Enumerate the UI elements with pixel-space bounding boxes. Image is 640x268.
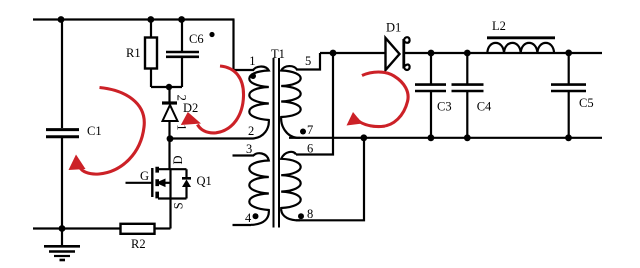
node ground / C1 bottom	[59, 225, 66, 232]
node C4 top	[464, 50, 471, 57]
node drain / pin 2	[167, 135, 174, 142]
wire C5 stems	[568, 53, 570, 138]
svg-text:1: 1	[249, 54, 255, 68]
wire R2 right lead	[155, 227, 171, 229]
wire body tap	[165, 182, 171, 184]
svg-text:8: 8	[307, 207, 313, 221]
svg-text:C3: C3	[437, 100, 452, 114]
wire D2 anode to drain node	[168, 121, 170, 169]
wire source / body diode bottom branch	[158, 197, 187, 199]
svg-text:R2: R2	[131, 237, 146, 251]
wire C3 stems	[430, 53, 432, 138]
current loop arrow 3 secondary loop	[357, 72, 409, 127]
wire pin 3 stub	[233, 154, 255, 156]
svg-text:R1: R1	[126, 46, 141, 60]
wire drain / body diode top branch	[158, 168, 187, 170]
wire pin 8 riser	[296, 138, 364, 221]
wire bottom-left rail	[33, 227, 121, 229]
node C6 top	[178, 16, 185, 23]
svg-text:4: 4	[245, 211, 252, 225]
wire pin 6 riser	[296, 53, 333, 155]
svg-text:2: 2	[174, 95, 188, 101]
inductor L2	[487, 36, 555, 39]
wire ground stem	[61, 229, 63, 246]
svg-text:5: 5	[305, 54, 311, 68]
node input top / C1	[58, 16, 65, 23]
wire top output rail left of D1	[320, 52, 386, 54]
transformer winding 6-8 secondary	[281, 152, 301, 220]
wire C6 bottom stem	[181, 58, 183, 88]
svg-text:6: 6	[307, 142, 313, 156]
wire bottom output rail from pin 7	[289, 137, 602, 139]
resistor R1	[145, 38, 157, 69]
node C3 bottom	[428, 134, 435, 141]
node phasing dot pin 8	[298, 213, 304, 219]
node C5 top	[565, 50, 572, 57]
wire R1-C6 junction link	[151, 86, 182, 88]
capacitor C3	[415, 85, 446, 91]
capacitor C6	[166, 52, 199, 57]
svg-text:S: S	[171, 202, 185, 209]
transistor Q1	[152, 167, 191, 199]
wire C4 stems	[466, 53, 468, 138]
node snubber bottom	[166, 84, 172, 90]
wire R1 top stem	[150, 20, 152, 38]
node pin7-pin8 rail	[360, 134, 367, 141]
node R1 top	[147, 16, 154, 23]
svg-text:G: G	[140, 169, 149, 183]
node C3 top	[428, 50, 435, 57]
transformer winding 3-4	[249, 153, 269, 225]
node pin5-pin6 rail	[330, 50, 337, 57]
node junction dots	[58, 16, 573, 232]
capacitor C1	[46, 130, 79, 137]
svg-text:Q1: Q1	[197, 174, 212, 188]
capacitor C4	[452, 85, 484, 91]
svg-text:C4: C4	[477, 100, 492, 114]
current loop arrow 1 primary input	[80, 88, 145, 175]
svg-text:T1: T1	[271, 47, 285, 61]
diode D1	[386, 38, 400, 70]
wire pin 5 to output rail	[296, 53, 320, 70]
wire pin 4 stub	[233, 224, 252, 226]
node C4 bottom	[464, 134, 471, 141]
capacitor C5	[551, 85, 586, 91]
wire left input vertical	[61, 20, 63, 129]
transformer T1 core	[274, 58, 280, 228]
svg-text:3: 3	[246, 142, 252, 156]
node C5 bottom	[565, 134, 572, 141]
wire C6 top stem	[181, 20, 183, 52]
node phasing dot pin 4	[253, 213, 259, 219]
svg-text:1: 1	[174, 124, 188, 130]
wire pin 2 to drain node	[170, 137, 248, 139]
node phasing dot pin 7	[300, 129, 306, 135]
wire riser to pin 1	[234, 20, 255, 71]
wire top output rail right of D1	[404, 52, 602, 54]
svg-text:7: 7	[307, 123, 313, 137]
transformer winding 1-2 primary	[247, 67, 269, 139]
wire top input rail	[33, 18, 235, 20]
wire R1 bottom stem	[150, 69, 152, 88]
transformer winding 5-7 secondary	[281, 66, 301, 138]
svg-text:C1: C1	[87, 124, 102, 138]
wire Q1 right bus	[169, 169, 171, 228]
svg-text:L2: L2	[492, 19, 506, 33]
svg-text:D1: D1	[386, 21, 401, 35]
current loop arrow 2 clamp loop	[198, 66, 244, 133]
resistor R2	[121, 224, 155, 234]
wire snubber drop to D2	[168, 87, 170, 103]
node stray dot near C6	[209, 32, 214, 37]
svg-text:C6: C6	[189, 32, 204, 46]
svg-text:D: D	[171, 155, 185, 164]
wire gate lead	[126, 182, 152, 184]
node phasing dot pin 1	[250, 73, 256, 79]
svg-text:D2: D2	[183, 101, 198, 115]
ground	[44, 246, 80, 260]
wire body diode stems	[185, 169, 187, 198]
svg-text:2: 2	[248, 124, 254, 138]
diode D2	[162, 103, 178, 121]
wire left vertical below C1	[61, 138, 63, 229]
svg-text:C5: C5	[579, 96, 594, 110]
